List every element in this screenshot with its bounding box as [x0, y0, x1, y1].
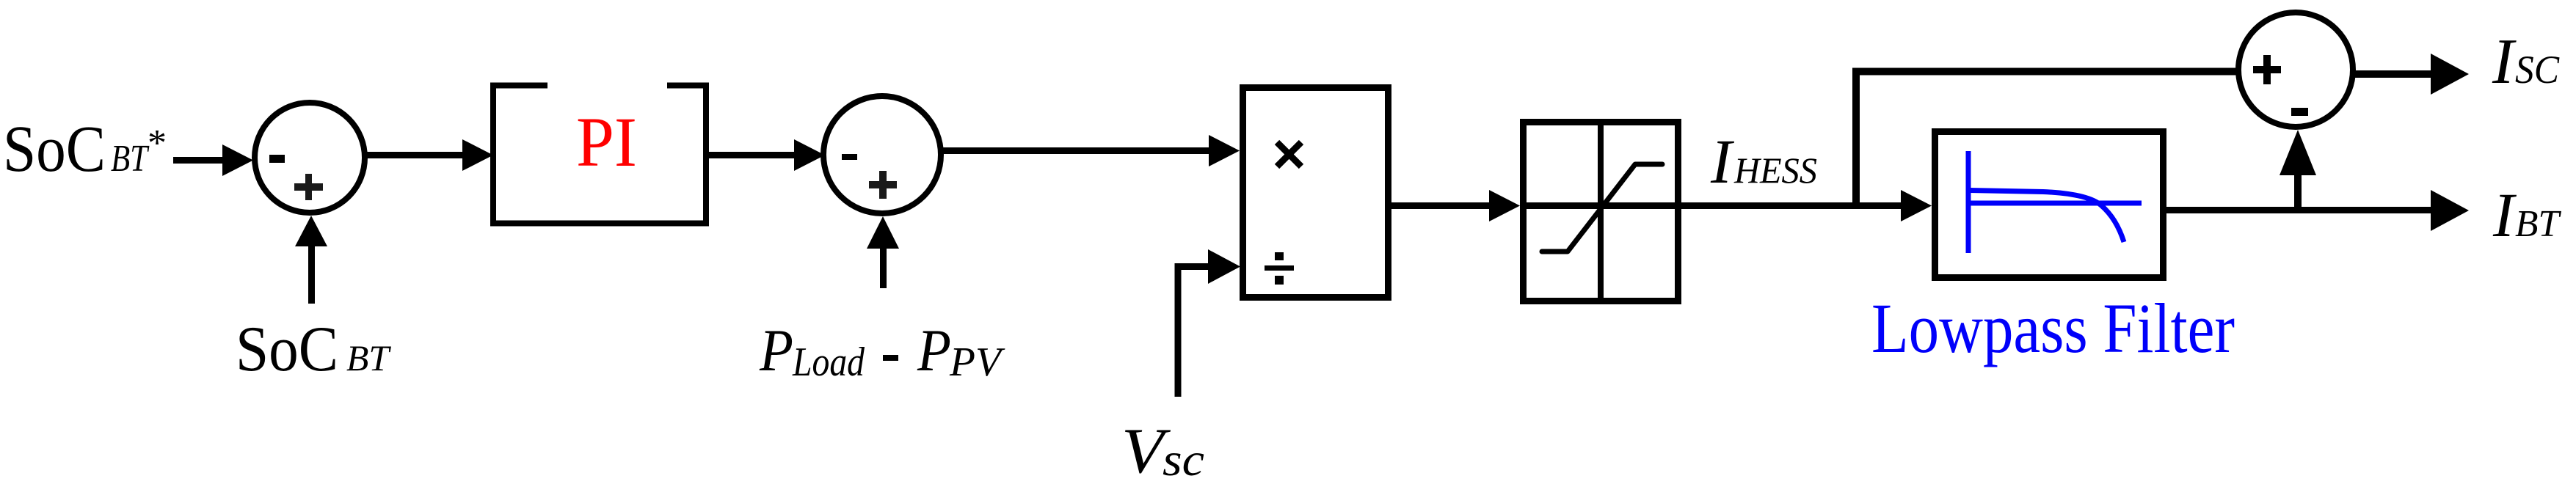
wire S1 to PI block: [365, 152, 464, 158]
label I_HESS: [1710, 126, 1817, 197]
svg-text:SoC: SoC: [236, 314, 338, 385]
svg-text:P: P: [759, 317, 793, 384]
svg-text:SoC: SoC: [3, 113, 106, 186]
svg-text:Load: Load: [792, 340, 865, 385]
summing junction S2: [823, 96, 941, 213]
block lowpass filter: [1935, 132, 2164, 278]
wire branch up from I_BT line into S3 minus input: [2294, 175, 2302, 210]
svg-text:SC: SC: [2515, 48, 2560, 92]
label Vsc: [1121, 416, 1204, 484]
wire PI to summing junction S2: [706, 152, 796, 158]
label SoC_BT* (reference input): [3, 113, 167, 186]
svg-text:P: P: [917, 317, 951, 384]
wire branch up from I_HESS line to summing junction S3: [1856, 72, 2238, 207]
block PI (controller box with gapped top edge): [493, 86, 706, 224]
S3 minus sign: [2291, 108, 2308, 116]
wire multiplier to saturation block: [1391, 202, 1490, 209]
wire S3 output to I_SC: [2354, 70, 2432, 78]
minus sign between P_Load and P_PV: [883, 355, 898, 361]
saturation horizontal axis: [1520, 202, 1681, 209]
label SoC_BT (measured input): [236, 314, 391, 385]
svg-text:BT: BT: [111, 138, 150, 180]
wire P_Load - P_PV up into S2: [880, 247, 887, 288]
block multiplier/divider: [1243, 88, 1389, 298]
saturation vertical axis: [1598, 119, 1604, 304]
svg-text:PV: PV: [949, 340, 1005, 385]
wire Vsc into divider input: [1178, 267, 1211, 397]
label I_SC: [2492, 26, 2560, 98]
label P_Load - P_PV: [759, 317, 865, 385]
svg-text:Lowpass Filter: Lowpass Filter: [1871, 289, 2235, 367]
svg-text:I: I: [2492, 26, 2517, 98]
multiply sign x: [1277, 142, 1301, 166]
svg-text:*: *: [148, 122, 167, 164]
svg-text:I: I: [2492, 180, 2517, 250]
svg-text:PI: PI: [576, 103, 637, 181]
svg-text:HESS: HESS: [1733, 150, 1817, 191]
svg-text:BT: BT: [2515, 203, 2561, 245]
block saturation (limiter): [1524, 122, 1678, 301]
wire saturation to lowpass filter (I_HESS net): [1681, 202, 1901, 209]
svg-text:I: I: [1710, 126, 1734, 197]
S2 minus sign: [842, 154, 857, 160]
wire SoC_BT* to summing junction S1: [173, 157, 225, 164]
summing junction S1: [255, 103, 365, 213]
wire SoC_BT feedback up into S1: [308, 245, 315, 304]
saturation curve: [1542, 164, 1662, 252]
wire filter output to I_BT: [2166, 207, 2434, 213]
S3 plus sign: [2253, 55, 2281, 84]
lowpass filter response curve (blue): [1968, 151, 2142, 253]
divide sign: [1265, 252, 1294, 285]
wire S2 to multiplier block x input: [941, 147, 1209, 154]
label I_BT: [2492, 180, 2561, 250]
S1 minus sign: [269, 155, 285, 163]
S1 plus sign: [294, 174, 323, 200]
summing junction S3: [2238, 12, 2353, 127]
S2 plus sign: [869, 171, 897, 199]
svg-text:BT: BT: [346, 337, 391, 378]
svg-text:sc: sc: [1163, 433, 1204, 484]
